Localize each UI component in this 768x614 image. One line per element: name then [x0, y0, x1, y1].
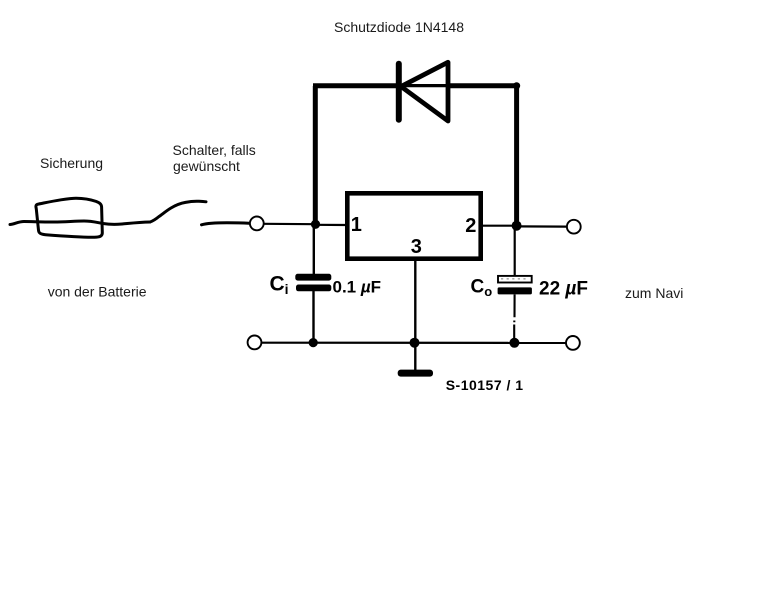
wire diode to top-right corner: [446, 83, 517, 88]
node top-right corner dot: [513, 82, 520, 89]
capacitor Co bottom plate: [498, 287, 532, 294]
svg-text:zum Navi: zum Navi: [625, 285, 683, 301]
wire node IN to diode (left riser): [313, 86, 318, 224]
node junction dot (Co ground): [509, 338, 519, 348]
capacitor Co top plate inner hatch: [501, 278, 529, 280]
wire capacitor Ci to ground rail: [312, 291, 314, 343]
diode D1 triangle: [401, 62, 448, 121]
capacitor Ci bottom plate: [296, 285, 331, 292]
wire top horizontal (diode branch): [313, 83, 398, 88]
wire regulator pin 3 to ground: [414, 260, 416, 370]
svg-text:2: 2: [465, 215, 476, 237]
wire input terminal to node IN: [264, 223, 316, 226]
svg-text:0.1 µF: 0.1 µF: [333, 278, 382, 297]
svg-text:Sicherung: Sicherung: [40, 155, 103, 171]
wire switch to input terminal (hand-drawn): [202, 223, 250, 225]
svg-text:Schutzdiode 1N4148: Schutzdiode 1N4148: [334, 19, 464, 35]
svg-text:von der Batterie: von der Batterie: [48, 284, 147, 300]
wire node OUT to output terminal: [517, 225, 566, 227]
ground terminal circle left: [248, 336, 262, 350]
node junction dot (pin 3 / ground rail): [410, 338, 420, 348]
svg-text:22 µF: 22 µF: [539, 279, 588, 300]
wire diode to node OUT (right riser): [514, 84, 519, 226]
node IN junction dot: [311, 220, 320, 229]
regulator U1 box: [347, 193, 480, 258]
svg-text:S-10157 / 1: S-10157 / 1: [446, 377, 524, 393]
svg-text:3: 3: [411, 236, 422, 258]
wire from battery (hand-drawn): [10, 221, 150, 225]
fuse F1 (hand-drawn box): [36, 198, 102, 237]
wire capacitor Co to ground rail (broken scan stroke): [513, 295, 515, 344]
wire node IN to capacitor Ci: [313, 224, 315, 275]
node OUT junction dot: [512, 221, 522, 231]
capacitor Ci top plate: [295, 274, 331, 281]
ground terminal circle right: [566, 336, 580, 350]
ground rail wire: [262, 342, 566, 344]
wire node IN to regulator pin 1: [315, 224, 346, 226]
svg-text:1: 1: [351, 214, 362, 236]
switch S1 arm (hand-drawn): [150, 201, 206, 222]
wire node OUT to capacitor Co: [514, 226, 516, 277]
ground symbol bar: [398, 370, 433, 377]
wire regulator pin 2 to node OUT: [482, 225, 517, 227]
output terminal circle: [567, 220, 581, 234]
input terminal circle: [250, 217, 264, 231]
node junction dot (Ci ground): [309, 338, 318, 347]
capacitor Co top plate (outlined): [498, 276, 532, 283]
diode D1 1N4148 cathode bar: [396, 64, 402, 120]
wire through diode: [398, 84, 448, 87]
